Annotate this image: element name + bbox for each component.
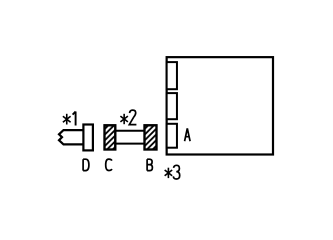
housing A (large box) <box>167 57 273 154</box>
label D <box>83 159 89 170</box>
part C (hatched bushing) <box>105 125 116 149</box>
slot 3 (bottom terminal cavity) <box>167 124 177 148</box>
slot 1 (top terminal cavity) <box>167 62 177 89</box>
footnote *2 digit 2 <box>129 110 136 125</box>
label C <box>106 159 112 170</box>
part B (hatched bushing) <box>145 125 157 149</box>
connecting bar between C and B <box>115 131 145 144</box>
part D flange <box>83 125 93 151</box>
footnote *2 asterisk <box>120 114 128 124</box>
footnote *3 asterisk <box>165 168 173 178</box>
part D shaft with jagged tip <box>59 130 84 144</box>
footnote *1 asterisk <box>63 114 71 125</box>
footnote *3 digit 3 <box>173 165 179 179</box>
label B <box>147 159 152 170</box>
label A <box>185 128 191 141</box>
footnote *1 digit 1 <box>73 112 76 126</box>
slot 2 (middle terminal cavity) <box>167 93 177 119</box>
